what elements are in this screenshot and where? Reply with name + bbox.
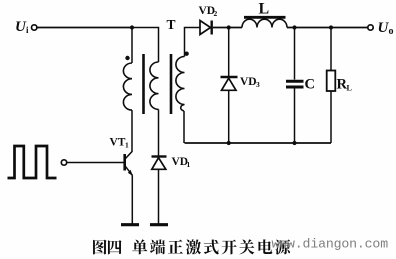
wire VD2 to L: [213, 27, 242, 29]
input terminal circle: [32, 25, 37, 30]
wire VD3 branch upper: [228, 28, 230, 77]
input terminal label Ui: [15, 19, 29, 35]
wire secondary top lead to VD2: [185, 28, 201, 57]
label VT1: [110, 137, 130, 150]
svg-text:3: 3: [256, 80, 260, 89]
svg-text:L: L: [347, 84, 352, 93]
wire Ui to primary junction: [37, 27, 132, 29]
inductor L: [242, 19, 287, 27]
resistor RL: [327, 71, 336, 92]
svg-text:VT: VT: [110, 137, 126, 149]
transformer T primary winding N1: [123, 63, 132, 110]
diode VD3: [221, 77, 238, 90]
wire RL branch upper: [330, 28, 332, 71]
wire base lead: [67, 162, 124, 164]
wire primary bottom lead to VT1 collector: [131, 110, 133, 151]
wire RL branch lower: [330, 91, 332, 143]
wire C branch upper: [294, 28, 296, 80]
node junction C bottom: [292, 141, 296, 145]
svg-text:C: C: [305, 77, 315, 93]
wire junction to reset winding corner: [132, 28, 159, 63]
transformer secondary winding N2: [176, 57, 185, 112]
pulse waveform symbol: [8, 146, 57, 178]
node junction VD3 bottom: [227, 141, 231, 145]
label VD3: [240, 76, 260, 89]
ground symbol under VT1: [121, 223, 139, 226]
svg-text:1: 1: [125, 141, 129, 150]
svg-text:2: 2: [214, 9, 218, 18]
output terminal label Uo: [378, 20, 394, 37]
diode VD2: [200, 21, 212, 35]
ground symbol under VD1: [150, 223, 168, 226]
wire primary top lead: [131, 28, 133, 64]
svg-text:o: o: [389, 26, 394, 37]
capacitor C: [286, 81, 304, 87]
wire VD1 to ground: [158, 169, 160, 223]
svg-text:VD: VD: [240, 76, 257, 88]
wire secondary bottom rail: [185, 142, 332, 144]
diode VD1: [152, 157, 167, 170]
node junction RL top: [329, 25, 333, 29]
transistor VT1: [125, 151, 133, 176]
wire secondary bottom lead: [183, 111, 185, 143]
svg-text:L: L: [259, 1, 270, 18]
label VD2: [199, 5, 218, 18]
node junction C top: [292, 25, 296, 29]
label RL: [337, 77, 352, 93]
svg-text:T: T: [167, 17, 176, 32]
svg-text:www.diangon.com: www.diangon.com: [272, 237, 389, 252]
polarity dot primary: [125, 56, 129, 60]
transformer core bar left: [142, 54, 145, 114]
wire L to output terminal: [287, 27, 368, 29]
node junction VD3 top: [227, 25, 231, 29]
wire reset winding bottom to VD1: [158, 109, 160, 156]
label VD1: [172, 156, 191, 169]
inductor L core bar: [244, 16, 286, 19]
svg-text:1: 1: [187, 160, 191, 169]
wire VT1 emitter to ground: [131, 176, 133, 224]
transformer core bar right: [170, 54, 173, 114]
svg-text:i: i: [26, 25, 29, 35]
wire C branch lower: [294, 89, 296, 144]
transformer reset winding N3: [150, 62, 159, 109]
polarity dot secondary: [184, 52, 188, 56]
output terminal circle: [368, 25, 373, 30]
wire VD3 branch lower: [228, 90, 230, 143]
drive input terminal circle: [61, 160, 66, 165]
node junction at primary top: [130, 25, 134, 29]
caption text 图四 单端正激式开关电源 (as paths): [93, 239, 290, 254]
